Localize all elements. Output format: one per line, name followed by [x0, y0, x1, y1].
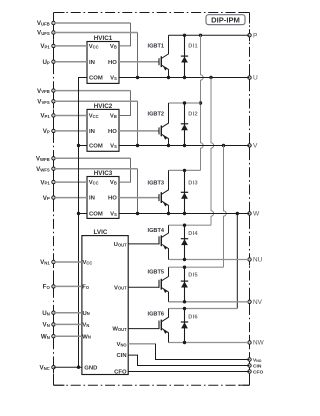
wire IGBT2 collector rail	[169, 102, 201, 104]
svg-text:HO: HO	[108, 196, 117, 202]
pin VUFS (terminal circle + label)	[37, 30, 55, 37]
junction DI3 cathode / IGBT3 collector rail	[183, 169, 186, 172]
svg-text:NV: NV	[253, 299, 263, 306]
svg-text:DI2: DI2	[188, 112, 198, 118]
junction VVFS/V-rail	[136, 144, 139, 147]
junction DI4 cathode / IGBT4 collector rail	[183, 224, 186, 227]
svg-text:U: U	[253, 75, 258, 82]
wire HVIC3 COM stub	[79, 213, 88, 215]
svg-text:VN: VN	[82, 323, 89, 329]
wire VVFS riser down to V-rail	[137, 101, 139, 145]
wire FO to LVIC FO	[54, 285, 82, 287]
wire LVIC CIN to pin CIN	[128, 355, 249, 365]
wire NU rail (IGBT4 emitter to pin NU)	[169, 259, 250, 261]
pin UN (terminal circle + label)	[42, 310, 55, 317]
svg-text:COM: COM	[89, 76, 103, 82]
wire P-drop (P rail down to IGBT2/IGBT3 collectors, hops over U and V rails)	[201, 35, 204, 170]
pin VNC (terminal circle + label)	[39, 364, 55, 371]
pin U (terminal circle + label)	[248, 75, 258, 82]
svg-text:COM: COM	[89, 144, 103, 150]
svg-text:COM: COM	[89, 212, 103, 218]
wire VP1 to HVIC2 VCC	[54, 115, 88, 117]
wire IGBT3 collector rail	[169, 169, 201, 171]
svg-text:DI4: DI4	[188, 231, 198, 237]
svg-text:CIN: CIN	[253, 363, 262, 369]
svg-text:HVIC2: HVIC2	[94, 103, 113, 110]
wire VWFB to HVIC3 VB	[54, 157, 131, 159]
svg-text:VVFS: VVFS	[37, 99, 50, 106]
svg-text:WOUT: WOUT	[112, 327, 127, 333]
wire UN to LVIC UN	[54, 312, 82, 314]
junction IGBT3 emitter / W rail	[167, 212, 170, 215]
pin UP (terminal circle + label)	[42, 59, 55, 66]
svg-text:VP1: VP1	[40, 43, 50, 50]
transistor IGBT2	[159, 103, 169, 146]
wire P rail (top bus to pin P)	[169, 34, 250, 36]
svg-text:CFO: CFO	[253, 369, 264, 375]
op-amp/driver block HVIC3	[87, 170, 119, 219]
svg-text:VVFB: VVFB	[37, 88, 50, 95]
svg-text:VNC: VNC	[39, 364, 49, 371]
pin VP_c (terminal circle + label)	[43, 195, 55, 202]
svg-text:LVIC: LVIC	[94, 229, 108, 236]
svg-text:HVIC1: HVIC1	[94, 35, 113, 42]
svg-text:UP: UP	[42, 59, 49, 66]
wire VN1 to LVIC VCC	[54, 261, 82, 263]
svg-text:IGBT2: IGBT2	[148, 112, 164, 118]
junction DI1 cathode / P rail	[183, 34, 186, 37]
svg-text:VCC: VCC	[82, 260, 92, 266]
pin VVFS (terminal circle + label)	[37, 99, 55, 106]
junction DI4 anode / NU rail	[183, 258, 186, 261]
wire HVIC1 HO to IGBT1 gate	[119, 61, 159, 63]
wire NW rail (IGBT6 emitter to pin NW)	[169, 342, 250, 344]
svg-text:UOUT: UOUT	[114, 242, 127, 248]
svg-text:VP1: VP1	[40, 179, 50, 186]
pin VN (terminal circle + label)	[43, 322, 56, 329]
svg-text:DI5: DI5	[188, 273, 198, 279]
junction COM bus / GND wire	[77, 366, 80, 369]
wire UP to HVIC1 IN	[54, 61, 88, 63]
pin VP1c (terminal circle + label)	[40, 179, 55, 186]
wire VP to HVIC2 IN	[54, 130, 88, 132]
pin V (terminal circle + label)	[248, 143, 258, 150]
svg-text:VS: VS	[110, 76, 117, 82]
svg-text:DI1: DI1	[188, 44, 198, 50]
pin CFO (terminal circle + label)	[248, 369, 264, 375]
svg-text:DI3: DI3	[188, 181, 198, 187]
wire IGBT6 collector rail	[169, 308, 238, 310]
wire VUFB riser down to VB	[119, 23, 131, 46]
junction DI1 anode / U rail	[183, 76, 186, 79]
junction DI6 anode / NW rail	[183, 341, 186, 344]
pin NU (terminal circle + label)	[248, 257, 263, 264]
wire VVFS to V-rail	[54, 100, 138, 102]
wire U rail (HVIC1 VS to pin U)	[119, 77, 250, 79]
wire HVIC2 HO to IGBT2 gate	[119, 130, 159, 132]
svg-text:UN: UN	[42, 310, 50, 317]
svg-text:VN: VN	[43, 322, 50, 329]
junction W-drop / W rail	[236, 212, 239, 215]
svg-text:IGBT3: IGBT3	[148, 181, 164, 187]
junction DI2 cathode / IGBT2 collector rail	[183, 101, 186, 104]
wire VNO bend to pin	[156, 344, 250, 360]
junction VUFS/U-rail	[136, 76, 139, 79]
diode DI3	[181, 170, 188, 213]
svg-text:DIP-IPM: DIP-IPM	[211, 16, 240, 25]
svg-text:VCC: VCC	[89, 44, 99, 50]
pin VP_b (terminal circle + label)	[43, 128, 55, 135]
svg-text:VUFS: VUFS	[37, 30, 50, 37]
svg-text:UN: UN	[82, 311, 89, 317]
svg-text:VOUT: VOUT	[114, 285, 127, 291]
wire VWFB riser down to VB	[119, 158, 131, 182]
svg-text:IGBT4: IGBT4	[148, 228, 165, 234]
wire HVIC3 HO to IGBT3 gate	[119, 197, 159, 199]
wire V rail (HVIC2 VS to pin V)	[119, 145, 250, 147]
svg-text:IGBT1: IGBT1	[148, 44, 164, 50]
wire VP1 to HVIC1 VCC	[54, 45, 88, 47]
svg-text:VS: VS	[110, 144, 117, 150]
svg-text:VNO: VNO	[253, 357, 262, 363]
svg-text:W: W	[253, 211, 260, 218]
svg-text:CFO: CFO	[114, 370, 127, 376]
pin NW (terminal circle + label)	[248, 340, 265, 347]
svg-text:WN: WN	[41, 333, 50, 340]
svg-text:GND: GND	[84, 365, 97, 371]
svg-text:VWFB: VWFB	[36, 156, 50, 163]
package outline border (dash-dot)	[54, 12, 250, 14]
wire LVIC WOUT to IGBT6 gate	[128, 321, 159, 329]
wire VUFS riser down to U-rail	[137, 33, 139, 78]
junction DI3 anode / W rail	[183, 212, 186, 215]
pin W (terminal circle + label)	[248, 211, 260, 218]
diode DI4	[181, 225, 188, 259]
wire VUFB to HVIC1 VB	[54, 22, 131, 24]
svg-text:VCC: VCC	[89, 114, 99, 120]
wire W-drop (W rail down to IGBT6 collector rail)	[236, 214, 238, 309]
svg-text:VCC: VCC	[89, 180, 99, 186]
svg-text:VUFB: VUFB	[37, 20, 50, 27]
wire U-drop (U rail down to IGBT4 collector rail, hops over V and W rails)	[211, 78, 214, 226]
wire VWFS to W-rail	[54, 168, 138, 170]
svg-text:IGBT5: IGBT5	[148, 270, 164, 276]
wire VNC to LVIC GND	[54, 366, 82, 368]
pin VUFB (terminal circle + label)	[37, 20, 55, 27]
wire IGBT4 collector rail	[169, 224, 212, 226]
wire VP1 to HVIC3 VCC	[54, 181, 88, 183]
wire LVIC VNO to pin VNO	[128, 343, 155, 345]
svg-text:NW: NW	[253, 340, 265, 347]
svg-text:VNO: VNO	[117, 342, 128, 348]
wire VN to LVIC VN	[54, 323, 82, 325]
svg-text:IN: IN	[89, 129, 95, 135]
junction V-drop / V rail	[222, 144, 225, 147]
junction U-drop / U rail	[209, 76, 212, 79]
junction IGBT1 emitter / U rail	[167, 76, 170, 79]
diode DI5	[181, 267, 188, 302]
wire VVFB to HVIC2 VB	[54, 90, 131, 92]
wire WN to LVIC WN	[54, 335, 82, 337]
junction P-drop / IGBT2 collector rail	[199, 101, 202, 104]
svg-text:IGBT6: IGBT6	[148, 312, 164, 318]
svg-text:VB: VB	[110, 180, 117, 186]
transistor IGBT3	[159, 170, 169, 213]
svg-text:VB: VB	[110, 44, 117, 50]
svg-text:HO: HO	[108, 129, 117, 135]
wire HVIC2 COM stub	[79, 145, 88, 147]
svg-text:VP: VP	[43, 195, 50, 202]
transistor IGBT5	[159, 267, 169, 302]
wire NV rail (IGBT5 emitter to pin NV)	[169, 301, 250, 303]
svg-text:VN1: VN1	[40, 259, 50, 266]
pin VWFS (terminal circle + label)	[36, 166, 55, 173]
wire VVFB riser down to VB	[119, 91, 131, 116]
junction DI6 cathode / IGBT6 collector rail	[183, 307, 186, 310]
junction P-drop / P rail	[199, 34, 202, 37]
diode DI6	[181, 309, 188, 343]
svg-text:VWFS: VWFS	[36, 166, 50, 173]
svg-text:VP1: VP1	[40, 113, 50, 120]
pin VVFB (terminal circle + label)	[37, 88, 55, 95]
svg-text:IN: IN	[89, 196, 95, 202]
wire LVIC UOUT to IGBT4 gate	[128, 236, 159, 244]
svg-text:HO: HO	[108, 60, 117, 66]
svg-text:V: V	[253, 143, 258, 150]
op-amp/driver block HVIC1	[87, 35, 119, 84]
pin P (terminal circle + label)	[248, 32, 258, 39]
junction COM bus / HVIC3 COM	[77, 212, 80, 215]
junction COM bus / HVIC2 COM	[77, 144, 80, 147]
svg-text:IN: IN	[89, 60, 95, 66]
svg-text:NU: NU	[253, 257, 263, 264]
svg-text:WN: WN	[82, 334, 91, 340]
op-amp/driver block HVIC2	[87, 103, 119, 152]
pin NV (terminal circle + label)	[248, 299, 263, 306]
wire LVIC VOUT to IGBT5 gate	[128, 280, 159, 288]
transistor IGBT6	[159, 309, 169, 343]
junction DI5 cathode / IGBT5 collector rail	[183, 266, 186, 269]
pin VNO (terminal circle + label)	[248, 357, 262, 363]
wire LVIC CFO to pin CFO	[128, 371, 249, 373]
wire VWFS riser down to W-rail	[137, 169, 139, 214]
junction VWFS/W-rail	[136, 212, 139, 215]
svg-text:FO: FO	[82, 285, 90, 291]
wire IGBT5 collector rail	[169, 266, 224, 268]
pin CIN (terminal circle + label)	[248, 363, 262, 369]
pin WN (terminal circle + label)	[41, 333, 55, 340]
svg-text:CIN: CIN	[116, 353, 126, 359]
pin VP1a (terminal circle + label)	[40, 43, 55, 50]
transistor IGBT1	[159, 35, 169, 77]
junction IGBT2 emitter / V rail	[167, 144, 170, 147]
svg-text:HVIC3: HVIC3	[94, 170, 113, 177]
svg-text:VS: VS	[110, 212, 117, 218]
pin FO (terminal circle + label)	[43, 284, 56, 291]
wire VUFS to U-rail	[54, 32, 138, 34]
driver block LVIC	[82, 229, 128, 376]
svg-text:DI6: DI6	[188, 314, 198, 320]
diode DI1	[181, 35, 188, 77]
pin VN1 (terminal circle + label)	[40, 259, 55, 266]
junction DI5 anode / NV rail	[183, 300, 186, 303]
DIP-IPM label box	[206, 15, 245, 25]
junction DI2 anode / V rail	[183, 144, 186, 147]
diode DI2	[181, 103, 188, 146]
pin VP1b (terminal circle + label)	[40, 113, 55, 120]
svg-text:VB: VB	[110, 114, 117, 120]
pin VWFB (terminal circle + label)	[36, 156, 55, 163]
svg-text:FO: FO	[43, 284, 51, 291]
svg-text:P: P	[253, 32, 258, 39]
transistor IGBT4	[159, 225, 169, 259]
wire W rail (HVIC3 VS to pin W)	[119, 213, 250, 215]
wire V-drop (V rail down to IGBT5 collector rail, hops over W rail)	[224, 146, 227, 268]
wire COM bus (HVIC1/2/3 COM to GND node)	[79, 78, 88, 368]
wire VP to HVIC3 IN	[54, 197, 88, 199]
svg-text:VP: VP	[43, 128, 50, 135]
